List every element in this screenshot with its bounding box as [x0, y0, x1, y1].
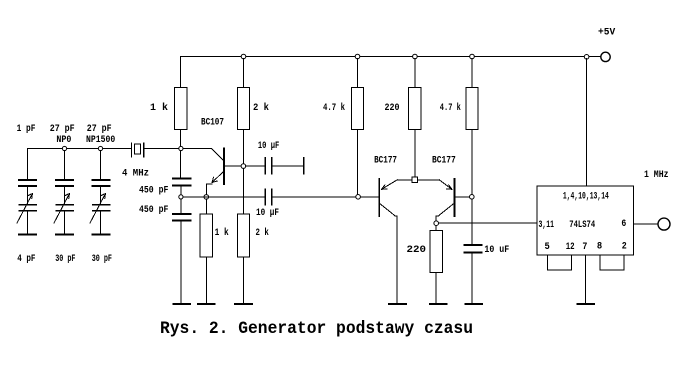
resistor R8 220 (tail): [430, 226, 442, 305]
svg-text:10 µF: 10 µF: [256, 207, 279, 219]
svg-text:1 k: 1 k: [215, 227, 229, 239]
ground C2: [173, 303, 190, 305]
node collector Q3: [434, 221, 439, 226]
wire pin 7: [585, 255, 587, 304]
transistor Q1 BC107: [184, 149, 242, 195]
svg-text:+5V: +5V: [598, 26, 616, 38]
svg-text:3,11: 3,11: [539, 219, 555, 231]
svg-text:NP1500: NP1500: [86, 134, 115, 146]
svg-text:4.7 k: 4.7 k: [440, 102, 461, 114]
capacitor CT1 (1 pF / 4 pF trimmer branch): [17, 149, 36, 235]
node rail R5: [355, 54, 360, 59]
wire left cap bus: [28, 148, 132, 150]
node rail R6: [413, 54, 418, 59]
node emitter Q1: [204, 195, 209, 200]
svg-text:1,4,10,13,14: 1,4,10,13,14: [563, 190, 609, 202]
svg-text:74LS74: 74LS74: [569, 219, 595, 231]
svg-text:NP0: NP0: [56, 134, 71, 146]
svg-text:450 pF: 450 pF: [139, 204, 168, 216]
svg-text:BC177: BC177: [374, 155, 397, 167]
svg-text:BC177: BC177: [432, 155, 456, 167]
node A (branch 2 junction): [62, 146, 66, 150]
svg-text:1 k: 1 k: [150, 102, 168, 114]
node rail R7: [470, 54, 475, 59]
svg-text:220: 220: [385, 102, 400, 114]
capacitor C3 10 uF (top coupling): [246, 158, 304, 174]
svg-text:6: 6: [621, 218, 626, 230]
terminal +5V: [601, 52, 610, 61]
ground pin 7: [578, 303, 595, 305]
node rail R2: [241, 54, 246, 59]
svg-text:4 pF: 4 pF: [17, 253, 35, 265]
resistor R3 1k (bottom): [200, 199, 212, 304]
svg-text:30 pF: 30 pF: [55, 253, 75, 265]
node base (junction crystal/R1/C450): [179, 146, 183, 150]
resistor R6 220: [409, 59, 421, 178]
resistor R4 2k (bottom): [237, 168, 249, 304]
node base right BC177: [470, 195, 475, 200]
svg-text:2 k: 2 k: [256, 227, 269, 239]
svg-text:450 pF: 450 pF: [139, 185, 168, 197]
svg-text:BC107: BC107: [201, 117, 224, 129]
svg-text:7: 7: [582, 241, 587, 253]
svg-text:4 MHz: 4 MHz: [122, 168, 149, 180]
resistor R2 2k (top): [237, 59, 249, 165]
capacitor C5 10 uF (filter): [464, 199, 481, 304]
transistor Q3 BC177 (right): [418, 179, 470, 221]
wire pins 8-2 link: [600, 255, 624, 270]
svg-text:10 uF: 10 uF: [484, 244, 509, 256]
svg-text:1 MHz: 1 MHz: [644, 169, 669, 181]
op-amp U1 74LS74 (IC box): [537, 186, 634, 255]
node collector Q1: [241, 164, 246, 169]
svg-text:1 pF: 1 pF: [17, 123, 36, 135]
resistor R1 1k (top): [175, 57, 187, 179]
capacitor C4 10 uF (bottom coupling): [265, 189, 379, 205]
svg-text:5: 5: [545, 241, 550, 253]
svg-text:Rys. 2. Generator podstawy cza: Rys. 2. Generator podstawy czasu: [160, 319, 473, 339]
node rail IC supply: [584, 55, 589, 60]
capacitor CT3 (27 pF NP1500 / 30 pF trimmer branch): [90, 151, 110, 235]
svg-text:8: 8: [597, 240, 602, 252]
node B (branch 3 junction): [98, 146, 102, 150]
node base left BC177: [356, 195, 361, 200]
capacitor C1 450 pF: [173, 178, 190, 194]
wire IC supply drop: [586, 59, 588, 186]
ground R3: [198, 303, 215, 305]
svg-text:30 pF: 30 pF: [92, 253, 112, 265]
wire crystal to base node: [145, 148, 181, 150]
ground Q2 collector: [389, 303, 406, 305]
svg-text:220: 220: [407, 244, 427, 256]
resistor R7 4.7k: [466, 59, 478, 195]
svg-text:2: 2: [622, 240, 627, 252]
ground R4: [235, 303, 252, 305]
svg-text:12: 12: [566, 241, 575, 253]
wire top +5V rail: [181, 56, 601, 58]
wire pin 6 output: [634, 223, 658, 225]
ground C5: [466, 303, 483, 305]
svg-text:10 µF: 10 µF: [258, 140, 279, 152]
wire Q3 collector to IC: [439, 222, 537, 224]
transistor Q2 BC177 (left): [361, 179, 413, 304]
svg-text:4.7 k: 4.7 k: [323, 102, 345, 114]
wire pins 5-12 link: [548, 255, 572, 270]
terminal output 1 MHz: [658, 218, 670, 230]
capacitor CT2 (27 pF NP0 / 30 pF trimmer branch): [54, 151, 73, 235]
node 450pF junction: [179, 195, 183, 199]
crystal X1 4 MHz: [132, 143, 144, 157]
node emitters (square junction): [412, 177, 418, 183]
ground R8: [430, 303, 447, 305]
capacitor C2 450 pF: [173, 199, 190, 304]
svg-text:2 k: 2 k: [253, 102, 269, 114]
wire emitter rail: [183, 196, 264, 198]
resistor R5 4.7k: [351, 59, 363, 195]
